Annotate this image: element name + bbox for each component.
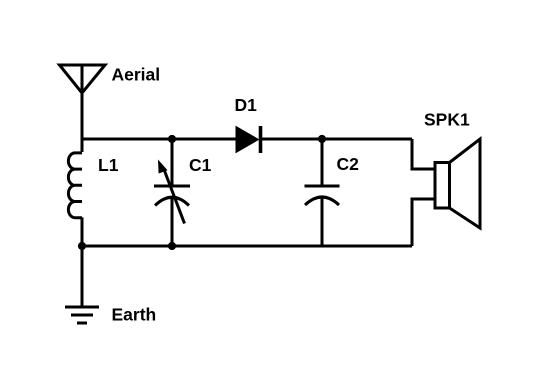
svg-text:SPK1: SPK1 [424, 110, 470, 130]
variable capacitor C1 arrow [158, 160, 185, 224]
svg-text:Aerial: Aerial [112, 65, 161, 85]
earth ground symbol [65, 246, 99, 323]
wire speaker upper branch [412, 139, 435, 169]
speaker SPK1 [435, 139, 480, 228]
svg-text:L1: L1 [98, 155, 119, 175]
junction node ground/bottom rail [78, 242, 86, 250]
inductor L1 [68, 153, 82, 218]
wire left rail above L1 [81, 139, 84, 152]
capacitor C2 [305, 139, 340, 246]
svg-text:D1: D1 [235, 95, 258, 115]
variable capacitor C1 [154, 139, 190, 246]
aerial antenna symbol [60, 65, 106, 139]
svg-text:C1: C1 [189, 155, 212, 175]
svg-text:C2: C2 [337, 154, 360, 174]
svg-text:Earth: Earth [112, 305, 157, 325]
wire bottom rail [82, 245, 412, 248]
wire top rail right segment (diode cathode to speaker branch) [260, 138, 412, 141]
wire left rail below L1 [81, 217, 84, 246]
diode D1 [236, 126, 261, 153]
junction node C1 top [168, 135, 176, 143]
wire top rail left segment (antenna node to diode anode) [82, 138, 236, 141]
wire speaker lower branch [412, 199, 435, 246]
junction node C2 top [318, 135, 326, 143]
junction node C1 bottom [168, 242, 176, 250]
